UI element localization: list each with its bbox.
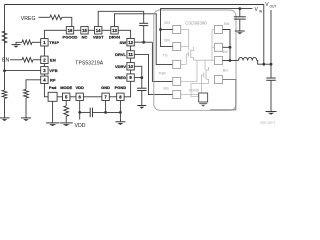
svg-text:VIN: VIN <box>164 38 170 42</box>
svg-text:VFB: VFB <box>49 68 58 73</box>
svg-text:VDD: VDD <box>75 123 86 129</box>
svg-text:16: 16 <box>68 28 73 33</box>
svg-text:SW: SW <box>222 50 228 54</box>
svg-text:14: 14 <box>96 28 101 33</box>
svg-text:OUT: OUT <box>270 4 277 8</box>
svg-text:11: 11 <box>128 52 133 57</box>
svg-text:GND: GND <box>101 85 110 90</box>
svg-text:12: 12 <box>128 40 133 45</box>
svg-text:VDRV: VDRV <box>115 64 126 69</box>
svg-text:VIN: VIN <box>164 21 170 25</box>
svg-text:VBST: VBST <box>93 35 104 40</box>
svg-text:EN: EN <box>2 58 9 64</box>
svg-text:TGR: TGR <box>158 72 166 76</box>
svg-text:UDG-11071: UDG-11071 <box>260 120 276 124</box>
svg-text:CSD96380: CSD96380 <box>185 21 207 26</box>
svg-text:VDD: VDD <box>75 85 84 90</box>
svg-text:BG: BG <box>164 87 169 91</box>
svg-text:15: 15 <box>82 28 87 33</box>
svg-text:VREG: VREG <box>21 16 36 22</box>
svg-text:TPS53219A: TPS53219A <box>75 61 103 67</box>
svg-text:BG: BG <box>223 69 228 73</box>
svg-text:TG: TG <box>163 53 168 57</box>
svg-text:Pad: Pad <box>49 85 57 90</box>
svg-text:10: 10 <box>128 64 133 69</box>
svg-text:PGOOD: PGOOD <box>63 35 78 40</box>
svg-text:PGND: PGND <box>115 85 127 90</box>
svg-text:VREG: VREG <box>115 75 126 80</box>
svg-text:SW: SW <box>120 40 127 45</box>
svg-text:DRVH: DRVH <box>109 35 120 40</box>
svg-text:EN: EN <box>50 57 56 62</box>
svg-text:NC: NC <box>82 35 88 40</box>
svg-text:DRVL: DRVL <box>115 52 126 57</box>
svg-text:MODE: MODE <box>60 85 72 90</box>
svg-text:RF: RF <box>50 77 56 82</box>
svg-text:TRIP: TRIP <box>49 40 59 45</box>
svg-text:13: 13 <box>112 28 117 33</box>
svg-text:SW: SW <box>224 22 230 26</box>
